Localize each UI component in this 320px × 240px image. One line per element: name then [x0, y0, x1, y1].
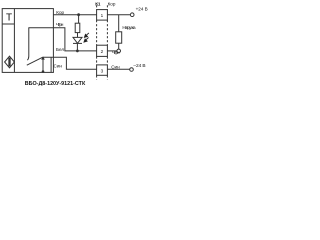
- svg-text:Черн: Черн: [112, 50, 120, 55]
- svg-text:3: 3: [101, 68, 104, 73]
- svg-text:Син: Син: [111, 64, 120, 69]
- svg-text:Нагрузка: Нагрузка: [122, 25, 136, 30]
- svg-text:Кор: Кор: [108, 2, 116, 7]
- svg-text:Кор: Кор: [56, 10, 64, 15]
- svg-text:Чёрн: Чёрн: [56, 22, 64, 27]
- svg-text:Бел: Бел: [56, 47, 64, 52]
- svg-text:+24 В: +24 В: [136, 7, 148, 12]
- svg-text:2: 2: [101, 49, 104, 54]
- svg-text:1: 1: [101, 13, 104, 18]
- svg-text:–24 В: –24 В: [133, 63, 145, 69]
- svg-text:Син: Син: [54, 63, 63, 68]
- svg-text:ВБО-Д8-120У-9121-СТК: ВБО-Д8-120У-9121-СТК: [25, 81, 86, 87]
- svg-text:К1: К1: [95, 1, 101, 6]
- svg-text:Т: Т: [6, 12, 12, 23]
